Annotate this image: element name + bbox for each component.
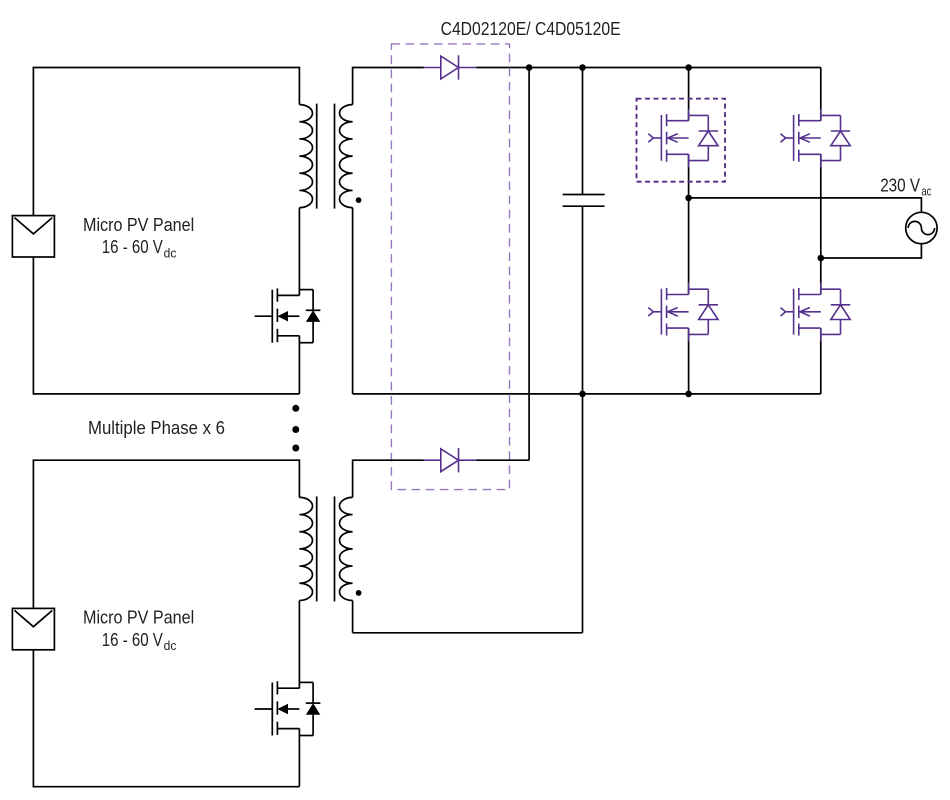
PV panel symbol PV1 — [12, 216, 54, 257]
wire: Q1 source to DC- rail — [298, 336, 300, 394]
wire: capacitor top lead — [582, 68, 584, 195]
wire: PV1 loop (left, top, right-down to transformer, bottom) — [33, 68, 299, 216]
wire: DC+ top rail — [476, 67, 821, 69]
wire: left leg upper (DC+ to M1 drain) — [688, 68, 690, 121]
node: left leg midpoint junction — [685, 195, 692, 202]
node: capacitor branch junction on DC- rail — [579, 391, 586, 398]
wire: capacitor bottom lead down to phase-2 return — [582, 206, 584, 633]
transistor M3 (SiC MOSFET, H-bridge bottom-left) — [648, 283, 718, 342]
svg-text:dc: dc — [164, 246, 177, 260]
wire: left leg lower (M3 source to DC- rail) — [688, 328, 690, 394]
wire: diode output bus (vertical) — [528, 68, 530, 461]
wire: T2 secondary top lead to D2 — [353, 460, 424, 497]
svg-text:ac: ac — [921, 184, 931, 198]
transformer T2 primary winding — [299, 497, 312, 600]
node: ellipsis dot 3 — [292, 445, 299, 452]
wire: left leg middle (M1 source to M3 drain) — [688, 154, 690, 294]
svg-text:C4D02120E/ C4D05120E: C4D02120E/ C4D05120E — [441, 18, 621, 39]
transistor M2 (SiC MOSFET, H-bridge top-right) — [781, 109, 851, 168]
wire: phase-2 secondary return (horizontal) — [353, 632, 583, 634]
node: left H-bridge leg junction on DC+ rail — [685, 64, 692, 71]
node: capacitor junction on DC+ rail — [579, 64, 586, 71]
wire: D2 output to diode bus — [476, 459, 529, 461]
dashed box: SiC diode group — [391, 44, 509, 490]
wire: T1 primary lead to Q1 drain — [298, 208, 300, 296]
transistor Q2 (flyback MOSFET, bottom phase) — [255, 681, 321, 735]
node: ellipsis dot 2 — [292, 426, 299, 433]
node: right leg midpoint junction — [818, 255, 825, 262]
wire: T2 secondary bottom lead — [352, 601, 354, 633]
wire: right leg upper — [820, 68, 822, 121]
svg-text:dc: dc — [164, 639, 177, 653]
wire: right leg middle — [820, 154, 822, 294]
transformer T1 primary winding — [299, 105, 312, 208]
svg-text:16 - 60 V: 16 - 60 V — [102, 236, 164, 257]
wire: T1 secondary top lead — [353, 68, 424, 105]
PV panel symbol PV2 — [12, 608, 54, 649]
wire: DC- rail — [353, 393, 821, 395]
transformer T2 secondary winding — [340, 497, 353, 600]
wire: T1 secondary bottom lead to DC- rail — [352, 208, 354, 394]
capacitor C1 (DC link) — [563, 194, 605, 196]
wire: AC source bottom to right leg midpoint — [821, 244, 922, 258]
transformer T2 core — [316, 496, 318, 601]
wire: T2 primary lead to Q2 drain — [298, 601, 300, 689]
wire: left leg midpoint to AC source top — [689, 198, 922, 212]
transformer T1 secondary winding — [340, 105, 353, 208]
wire: PV2 loop — [33, 460, 299, 608]
svg-text:16 - 60 V: 16 - 60 V — [102, 629, 164, 650]
diode D2 (SiC schottky, bottom phase) — [424, 448, 476, 472]
diode D1 (SiC schottky, top phase) — [424, 55, 476, 79]
dashed box: SiC MOSFET highlight — [637, 99, 726, 182]
transformer T2 polarity dot — [356, 590, 362, 596]
node: left H-bridge leg junction on DC- rail — [685, 391, 692, 398]
svg-text:Multiple Phase x 6: Multiple Phase x 6 — [88, 417, 225, 438]
svg-text:Micro PV Panel: Micro PV Panel — [83, 214, 194, 235]
transformer T1 core — [316, 104, 318, 209]
transistor Q1 (flyback MOSFET, top phase) — [255, 288, 321, 342]
svg-text:230 V: 230 V — [880, 174, 921, 195]
transformer T1 polarity dot — [356, 197, 362, 203]
svg-text:Micro PV Panel: Micro PV Panel — [83, 607, 194, 628]
node: ellipsis dot 1 — [292, 405, 299, 412]
node: diode bus junction on DC+ rail — [526, 64, 533, 71]
transistor M1 (SiC MOSFET, H-bridge top-left) — [648, 109, 718, 168]
wire: Q2 source to loop bottom — [298, 729, 300, 787]
AC source V1 (grid) — [906, 212, 937, 243]
wire: right leg lower — [820, 328, 822, 394]
transistor M4 (SiC MOSFET, H-bridge bottom-right) — [781, 283, 851, 342]
